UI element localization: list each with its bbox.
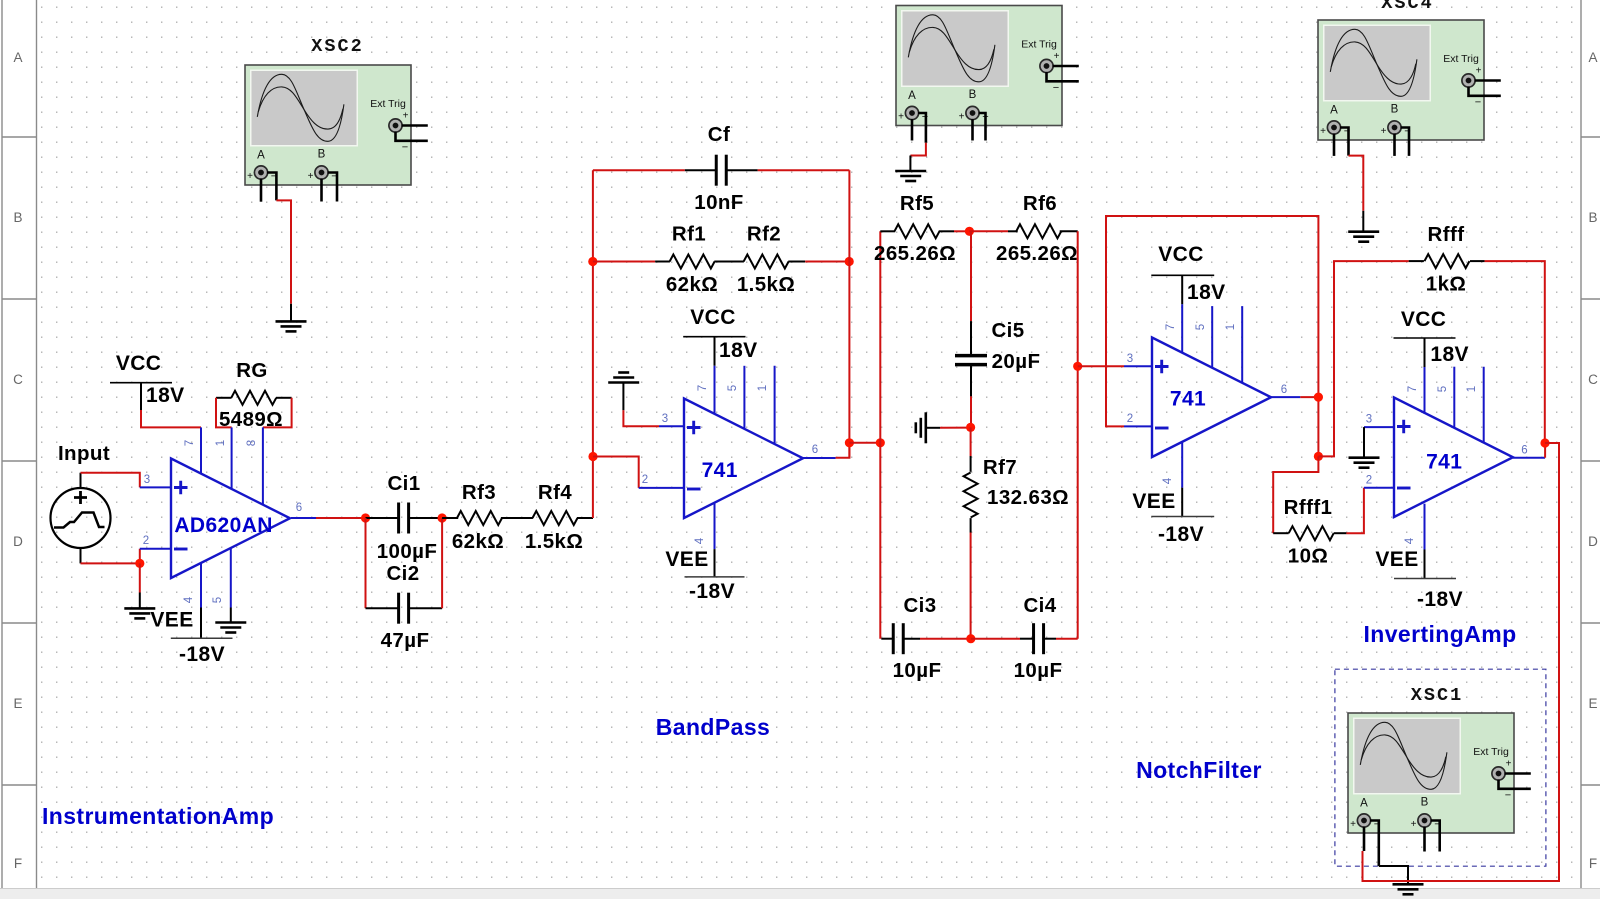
svg-text:10µF: 10µF — [1014, 659, 1063, 682]
pin number 4 U2 — [694, 537, 706, 544]
label 1.5kohm Rf2 — [737, 273, 795, 296]
power VEE1 label — [150, 609, 193, 632]
label -18V VEE4 — [1417, 588, 1463, 611]
wire pin3 U3 red — [1078, 365, 1124, 367]
svg-text:InvertingAmp: InvertingAmp — [1363, 621, 1516, 647]
svg-text:5: 5 — [212, 597, 224, 603]
svg-text:-18V: -18V — [1158, 523, 1204, 546]
svg-text:B: B — [1588, 210, 1597, 225]
label Input — [58, 442, 110, 465]
svg-text:VCC: VCC — [1158, 243, 1204, 266]
svg-text:A: A — [1588, 50, 1597, 65]
resistor Rf2 — [744, 255, 806, 269]
svg-text:VCC: VCC — [690, 306, 736, 329]
pin number 5 — [212, 597, 224, 603]
wire Ci2 right — [441, 518, 443, 608]
svg-text:NotchFilter: NotchFilter — [1136, 757, 1262, 783]
svg-text:−: − — [402, 142, 408, 154]
wire RG right — [263, 398, 292, 428]
wire Ci2 left — [365, 518, 367, 608]
pin number 3 U4 — [1366, 414, 1372, 426]
label Ci4 — [1023, 594, 1056, 617]
op-amp U1 AD620AN — [171, 459, 290, 579]
wire XSC2 ground stub — [290, 304, 292, 322]
wire bandpass left rail — [592, 170, 594, 518]
wire Rf2 lead-out — [805, 261, 849, 263]
wire pin4 U4 — [1424, 504, 1426, 579]
svg-text:RG: RG — [236, 359, 268, 382]
label 1kohm — [1426, 273, 1466, 296]
wire bandpass right rail — [848, 170, 850, 458]
svg-text:7: 7 — [184, 440, 196, 446]
label NotchFilter — [1136, 757, 1262, 783]
wire pin2 AD620 — [140, 548, 171, 550]
svg-text:-18V: -18V — [179, 643, 225, 666]
power VEE3 label — [1132, 490, 1175, 513]
resistor Rf3 — [442, 511, 533, 525]
svg-text:18V: 18V — [719, 339, 758, 362]
oscilloscope XSC4 — [1318, 20, 1501, 140]
junction notch mid — [966, 423, 975, 432]
resistor Rf4 — [533, 511, 594, 525]
label 5489ohm — [219, 408, 283, 431]
svg-text:A: A — [257, 150, 265, 162]
label 265.26ohm Rf6 — [996, 242, 1078, 265]
svg-text:+: + — [1350, 819, 1356, 830]
svg-text:4: 4 — [1162, 477, 1174, 484]
wire branch to Rfff — [1318, 261, 1408, 456]
svg-text:8: 8 — [246, 440, 258, 446]
junction Ci1 right — [438, 513, 447, 522]
label Ci1 — [387, 472, 420, 495]
label 741 U2 — [702, 459, 738, 482]
svg-text:5: 5 — [1195, 324, 1207, 330]
svg-text:Ci1: Ci1 — [387, 472, 420, 495]
wire XSC1 A+ stub — [1363, 827, 1366, 852]
label Cf — [708, 123, 730, 146]
svg-text:7: 7 — [1407, 386, 1419, 392]
svg-text:Rf4: Rf4 — [538, 481, 572, 504]
wire pin1 AD620 — [231, 427, 233, 488]
wire XSC3 A- lead — [918, 113, 926, 143]
svg-text:+: + — [1476, 66, 1482, 77]
wire XSC2 B- lead — [328, 173, 338, 202]
op-amp U4 741 — [1394, 398, 1513, 518]
junction U3 branch — [1314, 452, 1323, 461]
capacitor Ci1 — [366, 503, 443, 534]
wire pin3 AD620 — [140, 486, 171, 488]
pin number 3 — [144, 474, 150, 486]
wire pin5 U3 — [1211, 306, 1213, 368]
power VEE4 bar — [1394, 578, 1456, 580]
label XSC2 — [311, 36, 363, 57]
op-amp U2 741 — [684, 399, 803, 519]
wire junction to Rf6 — [969, 230, 1008, 232]
wire pin7 U2 — [714, 337, 716, 414]
wire out to notch — [849, 442, 880, 444]
svg-text:XSC2: XSC2 — [311, 36, 363, 57]
svg-text:Ci3: Ci3 — [903, 594, 936, 617]
label 265.26ohm Rf5 — [874, 242, 956, 265]
svg-text:6: 6 — [296, 502, 302, 514]
wire pin2 U2 red — [593, 457, 639, 488]
pin number 1 U2 — [757, 385, 769, 391]
svg-text:A: A — [1360, 798, 1368, 810]
svg-text:7: 7 — [1165, 324, 1177, 330]
svg-text:Rf2: Rf2 — [747, 223, 781, 246]
pin number 1 U3 — [1225, 324, 1237, 330]
wire XSC1 B- lead — [1431, 821, 1440, 852]
wire Ci3 to mid — [920, 638, 971, 640]
pin number 7 U4 — [1407, 386, 1419, 392]
label AD620AN — [174, 514, 273, 537]
op-amp U3 741 — [1152, 338, 1271, 458]
svg-text:Rfff: Rfff — [1428, 223, 1465, 246]
wire input ground — [139, 563, 141, 592]
svg-text:XSC1: XSC1 — [1411, 685, 1463, 706]
svg-text:2: 2 — [642, 474, 648, 486]
power VCC4 label — [1401, 308, 1447, 331]
svg-text:6: 6 — [1521, 445, 1527, 457]
pin number 8 — [246, 440, 258, 446]
power VCC2 bar — [683, 336, 745, 338]
label RG — [236, 359, 268, 382]
wire pin5 U4 — [1453, 367, 1455, 429]
svg-text:5: 5 — [727, 385, 739, 391]
pin number 5 U4 — [1437, 386, 1449, 392]
label Rf1 — [672, 223, 706, 246]
svg-text:10Ω: 10Ω — [1288, 545, 1328, 568]
svg-text:Rf1: Rf1 — [672, 223, 706, 246]
wire pin3 gnd stub — [1363, 427, 1365, 458]
pin number 2 U2 — [642, 474, 648, 486]
pin number 5 U3 — [1195, 324, 1207, 330]
svg-text:Ci4: Ci4 — [1023, 594, 1056, 617]
wire Ci5 bottom — [970, 396, 972, 427]
label 10uF Ci3 — [893, 659, 942, 682]
svg-text:4: 4 — [183, 596, 195, 603]
svg-text:3: 3 — [1127, 353, 1133, 365]
label 47uF — [381, 629, 430, 652]
wire pin1 U4 — [1483, 367, 1485, 444]
svg-text:AD620AN: AD620AN — [174, 514, 273, 537]
wire pin2 U4 — [1364, 487, 1394, 489]
label -18V VEE1 — [179, 643, 225, 666]
svg-text:1.5kΩ: 1.5kΩ — [525, 530, 583, 553]
pin number 6 U2 — [812, 444, 818, 456]
wire XSC3 ground stub — [909, 156, 911, 172]
power VEE3 bar — [1151, 516, 1214, 518]
resistor Rfff — [1409, 254, 1485, 268]
power VEE1 bar — [171, 637, 233, 639]
svg-text:Rf7: Rf7 — [983, 456, 1017, 479]
ground pin3 U4 — [1349, 458, 1380, 468]
wire XSC3 B+ stub — [971, 119, 974, 141]
pin number 3 U3 — [1127, 353, 1133, 365]
svg-text:62kΩ: 62kΩ — [452, 530, 504, 553]
wire U4 output — [1513, 457, 1545, 459]
svg-text:+: + — [1506, 759, 1512, 770]
svg-text:741: 741 — [702, 459, 738, 482]
wire U2 output red — [836, 443, 850, 458]
svg-text:+: + — [247, 171, 253, 182]
ground XSC4 — [1348, 232, 1379, 242]
junction rail pin3 U3 — [1073, 362, 1082, 371]
svg-text:B: B — [1391, 104, 1399, 116]
power VCC1 bar — [110, 382, 172, 384]
power VCC4 bar — [1394, 337, 1456, 339]
ground notch (sideways) — [916, 412, 926, 443]
junction Rf1 left — [588, 257, 597, 266]
svg-text:B: B — [1421, 797, 1429, 809]
svg-text:E: E — [1588, 696, 1597, 711]
svg-text:InstrumentationAmp: InstrumentationAmp — [42, 803, 274, 829]
wire notch left rail — [879, 231, 881, 638]
svg-text:+: + — [308, 171, 314, 182]
label -18V VEE3 — [1158, 523, 1204, 546]
wire pin4 U3 — [1181, 441, 1183, 516]
svg-text:741: 741 — [1170, 388, 1206, 411]
wire XSC2 A+ stub — [260, 179, 263, 202]
power VCC2 label — [690, 306, 736, 329]
svg-text:Cf: Cf — [708, 123, 730, 146]
svg-text:18V: 18V — [146, 384, 185, 407]
wire pin2 U3 feedback — [1106, 216, 1318, 457]
svg-text:Rf6: Rf6 — [1023, 192, 1057, 215]
wire XSC2 A- to ground — [276, 200, 291, 303]
ground XSC1 — [1393, 884, 1424, 894]
ground pin5 — [215, 623, 246, 633]
svg-text:−: − — [1475, 97, 1481, 109]
svg-text:Ext Trig: Ext Trig — [1443, 53, 1479, 65]
svg-text:4: 4 — [694, 537, 706, 544]
svg-text:+: + — [1054, 51, 1060, 62]
label 1.5kohm Rf4 — [525, 530, 583, 553]
svg-text:Rf3: Rf3 — [462, 481, 496, 504]
label XSC4 — [1381, 0, 1433, 14]
svg-text:−: − — [1505, 790, 1511, 802]
svg-text:VCC: VCC — [116, 352, 162, 375]
svg-text:D: D — [1588, 534, 1598, 549]
svg-text:5: 5 — [1437, 386, 1449, 392]
wire V1 top lead — [80, 473, 82, 488]
wire pin7 U4 — [1424, 338, 1426, 414]
wire Cf right — [758, 169, 850, 171]
svg-text:265.26Ω: 265.26Ω — [996, 242, 1078, 265]
svg-text:100µF: 100µF — [377, 540, 438, 563]
wire U4 out red — [1544, 443, 1546, 458]
power VCC3 label — [1158, 243, 1204, 266]
svg-text:3: 3 — [662, 413, 668, 425]
svg-text:4: 4 — [1404, 537, 1416, 544]
svg-text:2: 2 — [1366, 475, 1372, 487]
svg-text:1.5kΩ: 1.5kΩ — [737, 273, 795, 296]
svg-text:Ext Trig: Ext Trig — [1021, 39, 1057, 51]
junction notch in — [876, 438, 885, 447]
wire branch to Rfff1 — [1273, 456, 1318, 533]
svg-text:Ext Trig: Ext Trig — [1473, 746, 1509, 758]
wire XSC3 A+ stub — [911, 119, 914, 141]
pin number 7 U3 — [1165, 324, 1177, 330]
power VEE4 label — [1375, 548, 1418, 571]
svg-text:A: A — [1330, 105, 1338, 117]
pin number 1 — [215, 440, 227, 446]
wire XSC3 B- lead — [979, 113, 986, 141]
wire XSC2 B+ stub — [320, 179, 323, 202]
wire XSC4 B- lead — [1401, 128, 1410, 156]
wire pin3 U3 — [1124, 365, 1152, 367]
label Rf7 — [983, 456, 1017, 479]
wire Cf left — [593, 169, 685, 171]
wire V1 bottom lead — [80, 548, 82, 563]
svg-text:C: C — [1588, 372, 1598, 387]
selection box XSC1 — [1335, 669, 1546, 866]
wire output to Ci1 — [316, 517, 366, 519]
svg-text:47µF: 47µF — [381, 629, 430, 652]
pin number 4 — [183, 596, 195, 603]
svg-text:741: 741 — [1426, 451, 1462, 474]
svg-text:A: A — [13, 50, 22, 65]
junction input- — [135, 559, 144, 568]
wire V1+ to pin3 — [81, 473, 140, 488]
svg-text:+: + — [959, 112, 965, 123]
label Rf4 — [538, 481, 572, 504]
svg-text:+: + — [403, 111, 409, 122]
svg-text:Rfff1: Rfff1 — [1284, 496, 1333, 519]
wire U2 output — [802, 457, 836, 459]
svg-text:10µF: 10µF — [893, 659, 942, 682]
label Ci3 — [903, 594, 936, 617]
wire pin4 U2 — [714, 503, 716, 577]
svg-text:+: + — [1381, 126, 1387, 137]
svg-text:1kΩ: 1kΩ — [1426, 273, 1466, 296]
label BandPass — [656, 714, 770, 740]
ground XSC3 — [895, 171, 926, 181]
svg-text:B: B — [318, 149, 326, 161]
power VCC1 stub — [140, 383, 142, 410]
svg-text:D: D — [13, 534, 23, 549]
junction U3 out — [1314, 393, 1323, 402]
label Ci5 — [991, 319, 1024, 342]
oscilloscope XSC3 — [896, 6, 1079, 126]
svg-text:3: 3 — [1366, 414, 1372, 426]
label Rf6 — [1023, 192, 1057, 215]
svg-text:A: A — [908, 90, 916, 102]
label 10ohm — [1288, 545, 1328, 568]
pin number 4 U4 — [1404, 537, 1416, 544]
wire AD620 output — [291, 517, 316, 519]
wire out to XSC1 — [1363, 443, 1560, 881]
svg-text:−: − — [1053, 82, 1059, 94]
svg-text:2: 2 — [1127, 413, 1133, 425]
wire Rfff to out — [1485, 261, 1545, 443]
wire U3 out red — [1300, 396, 1318, 398]
resistor Rfff1 — [1273, 526, 1346, 540]
wire XSC1 A- lead — [1370, 821, 1379, 867]
svg-text:6: 6 — [812, 444, 818, 456]
wire XSC4 A- lead — [1340, 128, 1349, 156]
pin number 6 AD620 — [296, 502, 302, 514]
capacitor Ci2 — [366, 593, 443, 624]
junction Ci3/Ci4 — [966, 634, 975, 643]
label Rf3 — [462, 481, 496, 504]
label 132.63ohm — [987, 486, 1069, 509]
label 18V VCC2 — [719, 339, 758, 362]
power VEE2 label — [665, 548, 708, 571]
svg-text:+: + — [1411, 819, 1417, 830]
ground XSC2 — [276, 321, 307, 331]
pin number 6 U3 — [1281, 384, 1287, 396]
capacitor Ci3 — [881, 623, 920, 654]
pin number 4 U3 — [1162, 477, 1174, 484]
svg-text:F: F — [14, 856, 22, 871]
wire VCC1 to pin7 — [141, 410, 201, 427]
junction pin2 tap — [588, 452, 597, 461]
wire XSC1 A- to ground — [1379, 866, 1408, 884]
svg-text:18V: 18V — [1187, 281, 1226, 304]
label 18V VCC4 — [1430, 343, 1469, 366]
wire XSC2 A- lead — [267, 173, 276, 201]
pin number 2 U3 — [1127, 413, 1133, 425]
capacitor Cf — [685, 155, 758, 186]
oscilloscope XSC2 — [245, 65, 428, 185]
power VCC1 label — [116, 352, 162, 375]
wire XSC4 B+ stub — [1393, 134, 1396, 156]
label 10uF Ci4 — [1014, 659, 1063, 682]
junction U2 out — [845, 438, 854, 447]
label 100uF — [377, 540, 438, 563]
label XSC1 — [1411, 685, 1463, 706]
label InvertingAmp — [1363, 621, 1516, 647]
pin number 7 U2 — [697, 385, 709, 391]
wire XSC4 ground stub — [1362, 211, 1364, 232]
label Rf2 — [747, 223, 781, 246]
svg-text:B: B — [13, 210, 22, 225]
wire notch gnd stub — [926, 427, 940, 429]
capacitor Ci5 — [955, 321, 987, 396]
label 62kohm Rf1 — [666, 273, 718, 296]
svg-text:+: + — [1320, 126, 1326, 137]
junction Ci1 left — [361, 513, 370, 522]
label 20uF — [992, 350, 1041, 373]
svg-text:Ext Trig: Ext Trig — [370, 98, 406, 110]
svg-text:Ci2: Ci2 — [386, 562, 419, 585]
wire XSC1 B+ stub — [1423, 827, 1426, 852]
wire XSC3 A- to ground — [910, 143, 926, 156]
label 741 U3 — [1170, 388, 1206, 411]
svg-text:VEE: VEE — [150, 609, 193, 632]
wire pin3 ground stub — [622, 383, 624, 411]
label Rf5 — [900, 192, 934, 215]
svg-text:VCC: VCC — [1401, 308, 1447, 331]
wire pin2 U3 — [1124, 425, 1152, 427]
wire pin5 AD620 — [230, 548, 232, 622]
svg-text:62kΩ: 62kΩ — [666, 273, 718, 296]
svg-text:-18V: -18V — [1417, 588, 1463, 611]
svg-text:10nF: 10nF — [694, 191, 743, 214]
resistor Rf6 — [1008, 224, 1078, 238]
wire notch gnd red — [940, 427, 971, 429]
label 741 U4 — [1426, 451, 1462, 474]
wire pin1 U2 — [774, 366, 776, 444]
pin number 7 — [184, 440, 196, 446]
power VEE2 bar — [685, 576, 745, 578]
power VCC3 bar — [1151, 274, 1214, 276]
label 62kohm Rf3 — [452, 530, 504, 553]
junction U4 out — [1540, 438, 1549, 447]
svg-text:6: 6 — [1281, 384, 1287, 396]
pin number 3 U2 — [662, 413, 668, 425]
